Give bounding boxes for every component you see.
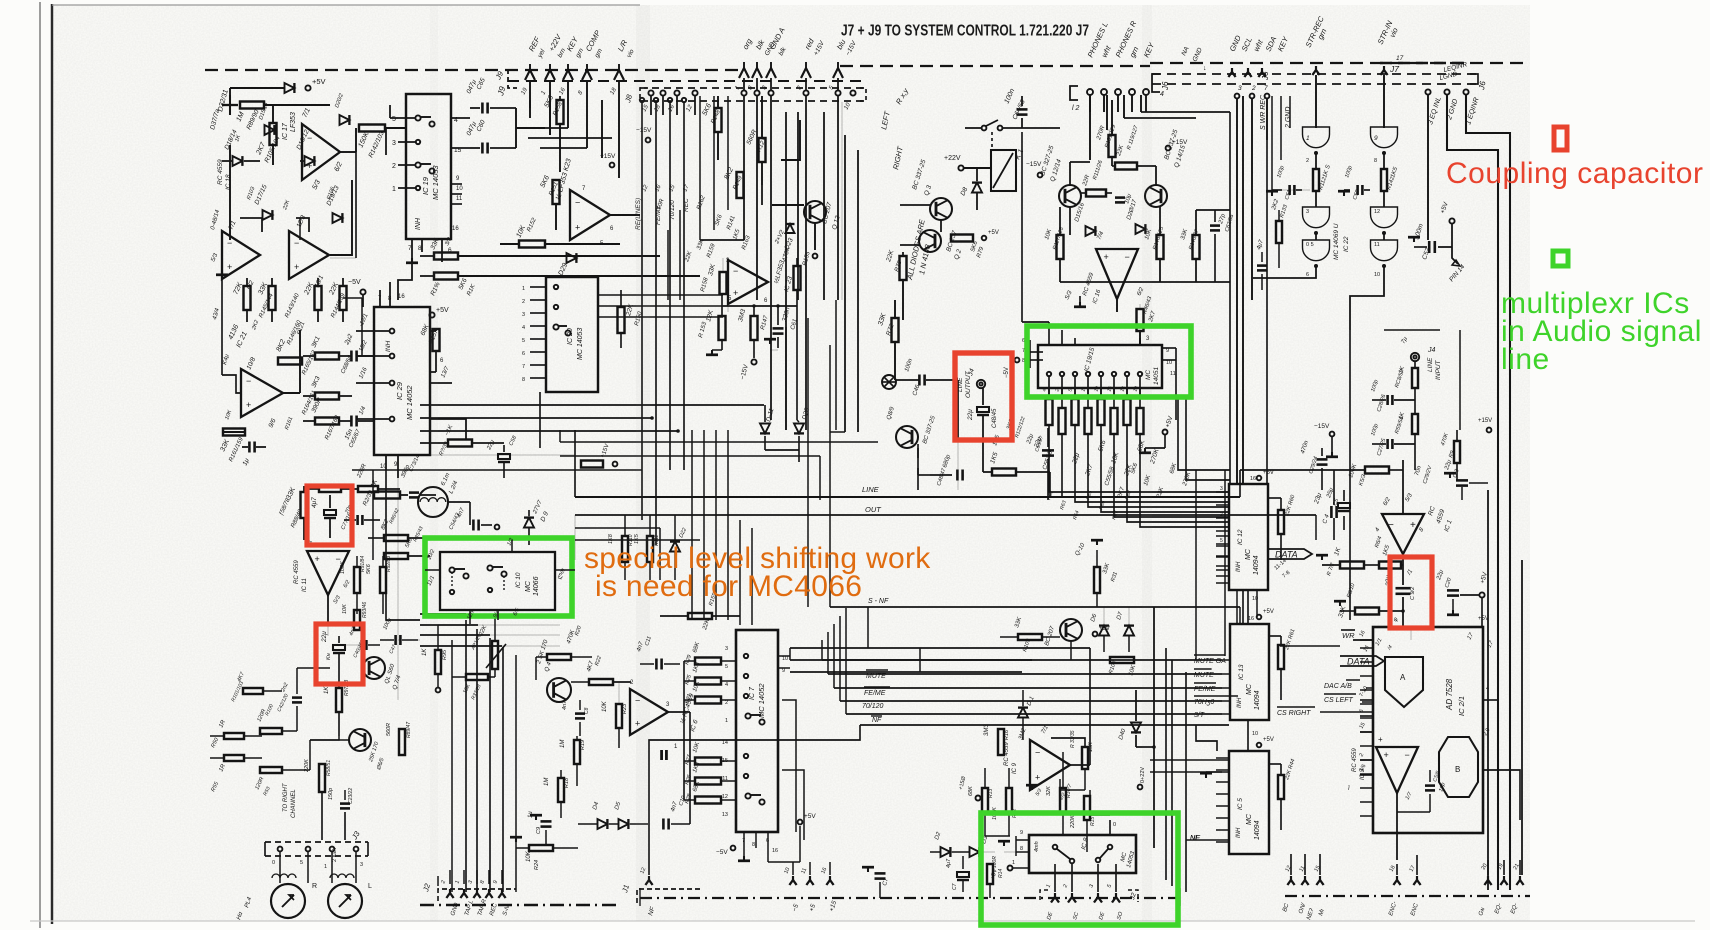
svg-text:R16: R16 — [1004, 729, 1010, 740]
svg-text:11: 11 — [1170, 371, 1176, 377]
svg-text:+5V: +5V — [1263, 609, 1274, 615]
svg-text:−: − — [294, 238, 299, 248]
svg-text:S - NF: S - NF — [868, 598, 889, 605]
svg-text:−15V: −15V — [1026, 161, 1042, 168]
svg-text:INH: INH — [1237, 697, 1243, 708]
svg-text:MC 14053: MC 14053 — [577, 328, 584, 360]
svg-text:INH: INH — [1236, 561, 1242, 572]
svg-text:10: 10 — [1374, 272, 1380, 278]
svg-text:IC 22: IC 22 — [1343, 236, 1350, 252]
svg-text:4n7: 4n7 — [562, 700, 568, 710]
svg-text:16: 16 — [398, 294, 405, 300]
svg-text:L: L — [368, 883, 372, 890]
svg-text:−5V: −5V — [348, 279, 361, 286]
svg-text:+: + — [1384, 750, 1389, 760]
svg-text:A: A — [1400, 673, 1406, 682]
svg-text:MUTE: MUTE — [1194, 672, 1214, 679]
svg-text:RC 4559: RC 4559 — [294, 560, 300, 584]
svg-text:Coupling capacitor: Coupling capacitor — [1446, 157, 1703, 190]
svg-text:IC 10: IC 10 — [515, 572, 522, 588]
svg-text:17: 17 — [1396, 55, 1404, 62]
svg-text:0: 0 — [272, 860, 275, 866]
svg-text:2: 2 — [392, 163, 396, 170]
svg-text:10: 10 — [782, 656, 788, 662]
svg-text:R13: R13 — [988, 789, 994, 798]
svg-text:R15: R15 — [1090, 817, 1096, 826]
svg-text:9: 9 — [1166, 348, 1169, 354]
svg-text:22μ: 22μ — [967, 409, 974, 421]
svg-text:4mh: 4mh — [1034, 841, 1040, 852]
svg-text:R14: R14 — [998, 869, 1004, 878]
svg-text:4: 4 — [522, 325, 525, 331]
svg-text:3: 3 — [1238, 85, 1242, 92]
svg-text:LINE: LINE — [862, 485, 880, 494]
svg-text:R89/47: R89/47 — [406, 722, 412, 738]
svg-text:MC 14069 U: MC 14069 U — [1333, 223, 1340, 260]
svg-text:+: + — [1104, 252, 1109, 262]
svg-text:FE/ME: FE/ME — [1194, 686, 1216, 693]
svg-text:3: 3 — [360, 862, 363, 868]
svg-text:16: 16 — [1248, 616, 1254, 622]
svg-text:11: 11 — [1374, 242, 1380, 248]
svg-text:R95: R95 — [442, 649, 448, 660]
svg-text:2: 2 — [1251, 85, 1256, 92]
svg-text:+: + — [1035, 773, 1040, 783]
svg-text:5: 5 — [725, 664, 728, 670]
svg-text:10K: 10K — [526, 850, 532, 862]
svg-text:8: 8 — [1020, 846, 1023, 852]
svg-text:DAC A/B: DAC A/B — [1324, 683, 1352, 690]
svg-text:WR: WR — [1342, 631, 1355, 640]
svg-text:5: 5 — [522, 338, 525, 344]
svg-text:3: 3 — [392, 140, 396, 147]
svg-text:−: − — [733, 266, 738, 276]
svg-text:l 2: l 2 — [1072, 105, 1080, 112]
svg-text:+: + — [733, 288, 738, 298]
svg-text:10K: 10K — [602, 700, 608, 712]
svg-text:AD 7528: AD 7528 — [1445, 678, 1454, 711]
svg-text:+: + — [227, 262, 232, 272]
svg-text:16: 16 — [772, 848, 778, 854]
svg-text:Kɴ: Kɴ — [326, 652, 332, 660]
svg-text:4μ7: 4μ7 — [946, 858, 952, 868]
svg-text:2 GND: 2 GND — [1285, 107, 1292, 129]
svg-text:14066: 14066 — [533, 576, 540, 596]
svg-text:+: + — [315, 554, 320, 564]
svg-text:IC 5: IC 5 — [1237, 798, 1244, 810]
svg-text:INPUT: INPUT — [1435, 359, 1442, 380]
svg-text:1K: 1K — [324, 686, 330, 694]
svg-text:3M3: 3M3 — [984, 724, 990, 736]
svg-text:IC 12: IC 12 — [1237, 529, 1244, 545]
svg-text:CS LEFT: CS LEFT — [1324, 697, 1354, 704]
svg-text:J6: J6 — [1261, 71, 1270, 81]
svg-text:R18: R18 — [564, 777, 570, 788]
svg-text:LINE: LINE — [1427, 357, 1434, 372]
svg-text:3: 3 — [725, 646, 728, 652]
svg-text:4: 4 — [725, 682, 728, 688]
svg-text:9: 9 — [1020, 830, 1023, 836]
svg-text:70Hʒ0: 70Hʒ0 — [1194, 699, 1214, 706]
svg-text:RC 4559: RC 4559 — [1352, 748, 1358, 772]
svg-text:FE/ME: FE/ME — [864, 690, 886, 697]
svg-text:+15V: +15V — [600, 153, 616, 160]
svg-text:1: 1 — [324, 864, 327, 870]
svg-text:R17: R17 — [1066, 789, 1072, 798]
svg-text:−: − — [1388, 520, 1394, 531]
svg-text:6: 6 — [522, 351, 525, 357]
svg-text:+15V: +15V — [1172, 139, 1188, 146]
svg-text:line: line — [1501, 343, 1550, 376]
svg-text:−5V: −5V — [1004, 367, 1010, 378]
svg-text:−: − — [1035, 748, 1040, 758]
svg-text:6: 6 — [1306, 272, 1309, 278]
svg-text:14: 14 — [722, 740, 728, 746]
svg-text:1: 1 — [1012, 860, 1015, 866]
svg-text:OUTPUT: OUTPUT — [965, 370, 972, 398]
svg-text:IC 17: IC 17 — [282, 122, 289, 140]
svg-text:MC: MC — [525, 580, 532, 592]
svg-text:9: 9 — [782, 668, 785, 674]
svg-text:TO RIGHT: TO RIGHT — [283, 782, 289, 812]
svg-text:15K: 15K — [1088, 742, 1094, 752]
svg-text:4μ7: 4μ7 — [311, 497, 318, 508]
svg-text:220K: 220K — [304, 759, 310, 773]
svg-text:R: R — [312, 883, 317, 890]
svg-text:1: 1 — [392, 186, 396, 193]
svg-text:4: 4 — [1160, 91, 1164, 98]
svg-text:CS RIGHT: CS RIGHT — [1277, 710, 1311, 717]
svg-text:2 KEY: 2 KEY — [332, 846, 338, 862]
svg-text:IC 2/1: IC 2/1 — [1457, 696, 1466, 716]
svg-text:14094: 14094 — [1254, 820, 1261, 840]
svg-text:2: 2 — [522, 299, 525, 305]
svg-text:IC 9: IC 9 — [1012, 762, 1018, 774]
svg-text:R23: R23 — [622, 703, 628, 714]
svg-text:5: 5 — [300, 860, 303, 866]
svg-text:8: 8 — [522, 377, 525, 383]
svg-text:2: 2 — [1306, 158, 1309, 164]
svg-text:5: 5 — [392, 116, 396, 123]
svg-text:3: 3 — [1220, 486, 1223, 492]
svg-text:−: − — [575, 198, 580, 208]
svg-text:15: 15 — [722, 758, 728, 764]
svg-text:8: 8 — [752, 842, 755, 848]
svg-text:R 33/35: R 33/35 — [1070, 730, 1076, 748]
svg-text:100R: 100R — [992, 856, 998, 868]
svg-text:IC 7: IC 7 — [749, 686, 756, 700]
svg-text:150p: 150p — [328, 788, 334, 800]
svg-text:12: 12 — [722, 794, 728, 800]
svg-text:1: 1 — [522, 286, 525, 292]
svg-text:3/T: 3/T — [1194, 712, 1205, 719]
svg-text:+: + — [246, 400, 251, 410]
svg-text:+: + — [1378, 735, 1383, 744]
svg-text:MUTE: MUTE — [866, 673, 886, 680]
svg-text:is need for MC4066: is need for MC4066 — [595, 570, 862, 603]
svg-text:8: 8 — [1374, 158, 1377, 164]
svg-text:68K: 68K — [968, 786, 974, 796]
svg-text:INH: INH — [385, 341, 392, 353]
svg-text:560R: 560R — [386, 723, 392, 736]
svg-text:+22V: +22V — [944, 155, 961, 162]
svg-text:14094: 14094 — [1253, 555, 1260, 575]
svg-text:16: 16 — [1250, 476, 1256, 482]
svg-text:OUT: OUT — [865, 505, 882, 514]
svg-text:−: − — [1125, 252, 1130, 262]
svg-text:−15V: −15V — [1314, 423, 1330, 430]
svg-text:10: 10 — [456, 186, 463, 192]
svg-text:−: − — [246, 376, 251, 386]
svg-text:3: 3 — [522, 312, 525, 318]
svg-text:NF: NF — [872, 717, 882, 724]
svg-text:B: B — [1455, 765, 1460, 774]
svg-text:11: 11 — [722, 776, 728, 782]
svg-text:5K6: 5K6 — [366, 563, 372, 574]
svg-text:12: 12 — [1374, 209, 1380, 215]
svg-text:R24: R24 — [534, 860, 540, 870]
svg-text:11: 11 — [456, 196, 463, 202]
svg-text:1M: 1M — [560, 740, 566, 748]
svg-text:−: − — [1405, 750, 1410, 760]
svg-text:1K: 1K — [422, 648, 428, 656]
svg-text:C48/45: C48/45 — [992, 408, 998, 428]
svg-text:INH: INH — [1236, 827, 1242, 838]
svg-text:MC: MC — [1246, 813, 1253, 825]
svg-text:J7 + J9 TO SYSTEM CONTROL 1.72: J7 + J9 TO SYSTEM CONTROL 1.721.220 J7 — [841, 23, 1089, 40]
svg-text:DATA: DATA — [1275, 550, 1298, 560]
svg-text:IC 13: IC 13 — [1238, 664, 1245, 680]
svg-text:32K: 32K — [1046, 786, 1052, 796]
svg-text:5: 5 — [1220, 538, 1223, 544]
svg-text:J4: J4 — [1427, 347, 1436, 354]
svg-text:−5V: −5V — [716, 849, 728, 856]
svg-text:+5V: +5V — [312, 77, 326, 86]
svg-text:R58/51: R58/51 — [326, 760, 332, 776]
svg-text:1: 1 — [1306, 135, 1310, 142]
svg-text:IC 11: IC 11 — [302, 578, 308, 592]
svg-text:13: 13 — [722, 812, 728, 818]
svg-text:9: 9 — [1374, 135, 1378, 142]
svg-text:+: + — [294, 262, 299, 272]
svg-text:+5V: +5V — [988, 230, 999, 236]
svg-text:3: 3 — [1306, 209, 1309, 215]
svg-text:MUTE GA: MUTE GA — [1194, 658, 1226, 665]
svg-text:INH: INH — [415, 217, 422, 230]
svg-text:+5V: +5V — [1263, 470, 1274, 476]
svg-text:MC: MC — [1245, 548, 1252, 560]
svg-text:S WR REC: S WR REC — [1260, 94, 1267, 130]
svg-text:1M: 1M — [544, 778, 550, 786]
svg-text:+15V: +15V — [1478, 418, 1492, 424]
svg-text:IC 19: IC 19 — [421, 176, 430, 195]
svg-text:7: 7 — [522, 364, 525, 370]
svg-text:J7: J7 — [1389, 64, 1399, 74]
svg-text:C8: C8 — [584, 707, 590, 714]
svg-text:+5V: +5V — [804, 813, 816, 820]
svg-text:R93/46: R93/46 — [362, 602, 368, 618]
svg-text:0 5: 0 5 — [1306, 242, 1314, 248]
svg-text:100K: 100K — [340, 561, 346, 574]
svg-text:C9: C9 — [536, 827, 542, 834]
svg-text:220K: 220K — [1070, 815, 1076, 829]
svg-text:+5V: +5V — [1263, 737, 1274, 743]
svg-text:+: + — [1410, 520, 1416, 531]
svg-text:MC 14052: MC 14052 — [405, 385, 414, 420]
svg-text:14051: 14051 — [1153, 367, 1160, 385]
svg-text:10: 10 — [1252, 731, 1258, 737]
svg-text:C23/22: C23/22 — [348, 788, 354, 804]
svg-text:7: 7 — [1264, 85, 1268, 92]
svg-text:MC: MC — [1246, 683, 1253, 695]
svg-text:+: + — [575, 223, 580, 233]
svg-text:MC 14052: MC 14052 — [757, 683, 766, 718]
svg-text:10: 10 — [1166, 360, 1172, 366]
svg-text:10K: 10K — [342, 604, 348, 614]
svg-text:IC 29: IC 29 — [395, 381, 404, 400]
svg-text:RC 4559: RC 4559 — [217, 159, 224, 185]
svg-text:2: 2 — [725, 700, 728, 706]
svg-text:R19: R19 — [580, 740, 586, 750]
svg-text:↓: ↓ — [1203, 65, 1207, 72]
svg-text:0: 0 — [1113, 822, 1116, 828]
svg-text:14094: 14094 — [1254, 690, 1261, 710]
svg-text:C7: C7 — [952, 883, 958, 890]
svg-text:16: 16 — [452, 226, 459, 232]
svg-text:22μ: 22μ — [321, 631, 328, 643]
svg-text:1: 1 — [725, 718, 728, 724]
svg-text:70/120: 70/120 — [862, 703, 884, 710]
svg-text:LF353: LF353 — [290, 112, 297, 132]
svg-text:J6: J6 — [1161, 81, 1170, 91]
svg-text:C 9/2: C 9/2 — [1410, 587, 1416, 600]
svg-text:CHANNEL: CHANNEL — [291, 789, 297, 818]
